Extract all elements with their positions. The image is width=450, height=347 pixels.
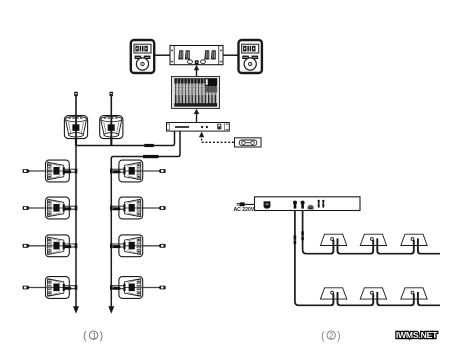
svg-text:(: ( — [83, 330, 87, 342]
power sequencer / amplifier U3 (AC 220V) — [255, 197, 361, 211]
ceiling speaker CS6 (row 2) — [401, 288, 427, 299]
wire stubs WS8 to trunk column 2 — [110, 285, 124, 290]
wire plug P2 down to CS-B — [110, 94, 112, 116]
wire plug to wall speaker WS8 — [142, 287, 158, 289]
svg-text:): ) — [100, 330, 104, 342]
wire CS-A drop to feed line — [75, 139, 77, 146]
leads of ceiling speaker CS4 — [331, 292, 341, 305]
leads of ceiling speaker CS3 — [411, 238, 421, 253]
arrow preamp to mixer — [194, 109, 199, 123]
ceiling speaker CS4 (row 2) — [320, 288, 346, 299]
plug P3 for wall speaker WS1 — [23, 169, 31, 173]
wire stubs WS3 to trunk column 1 — [64, 243, 77, 248]
zone preamp / distributor U2 — [167, 123, 230, 132]
svg-text:): ) — [337, 330, 341, 342]
power socket on U3 — [264, 201, 271, 208]
terminal group T4 (speaker outputs) — [318, 200, 325, 208]
wire stubs WS5 to trunk column 2 — [110, 169, 124, 174]
plug P6 for wall speaker WS4 — [23, 286, 31, 290]
wire stubs WS7 to trunk column 2 — [110, 243, 124, 248]
arrow trunk column 1 continues — [73, 306, 79, 314]
wall speaker WS2 — [46, 197, 70, 219]
ceiling speaker CS1 (row 1) — [320, 234, 346, 245]
svg-text:2: 2 — [329, 330, 334, 340]
wall speaker WS1 — [46, 160, 70, 182]
arrow trunk column 2 continues — [108, 306, 114, 314]
svg-text:AC 220V: AC 220V — [234, 207, 255, 213]
wire plug to wall speaker WS1 — [30, 170, 47, 172]
output terminal T1 — [293, 201, 297, 209]
connector blocks on row-2 drop wire — [294, 235, 297, 244]
wire bus row 2 tail — [421, 304, 440, 306]
cassette deck / program source — [235, 138, 262, 147]
leads of ceiling speaker CS5 — [370, 292, 380, 305]
leads of ceiling speaker CS6 — [411, 292, 421, 305]
ceiling speaker CS2 (row 1) — [360, 234, 386, 245]
svg-text:1: 1 — [92, 330, 97, 340]
connector block on feed line A — [144, 144, 154, 147]
wire trunk column 1 — [75, 146, 77, 307]
wire plug to wall speaker WS5 — [142, 170, 158, 172]
wire bus row 2 segment 2 — [380, 304, 411, 306]
output terminal T2 — [301, 201, 305, 209]
wire plug to wall speaker WS7 — [142, 245, 158, 247]
svg-text:(: ( — [321, 330, 325, 342]
wire stubs WS6 to trunk column 2 — [110, 206, 124, 211]
ceiling speaker CS-A — [64, 116, 87, 139]
wire plug to wall speaker WS2 — [30, 207, 47, 209]
terminal T3 (fuse holder) — [307, 205, 314, 209]
plug P10 for wall speaker WS8 — [158, 286, 166, 290]
wall speaker WS4 — [46, 277, 70, 299]
mixer console MX — [172, 77, 220, 109]
wire bus row 1 tail — [421, 253, 440, 255]
wall speaker WS6 — [119, 197, 143, 219]
power amplifier U1 — [170, 46, 223, 65]
wire plug to wall speaker WS3 — [30, 245, 47, 247]
ceiling speaker CS5 (row 2) — [360, 288, 386, 299]
wire stubs WS2 to trunk column 1 — [64, 206, 77, 211]
wire amplifier to SP2 — [223, 54, 239, 56]
wire CS-B drop to feed line — [110, 139, 112, 146]
svg-text:IWMS.NET: IWMS.NET — [396, 330, 438, 340]
leads of ceiling speaker CS1 — [331, 238, 341, 253]
wire plug to wall speaker WS4 — [30, 287, 47, 289]
ceiling speaker CS3 (row 1) — [401, 234, 427, 245]
dashed wire cassette deck to preamp with arrow — [199, 132, 234, 143]
connector blocks on row-1 drop wire — [301, 231, 304, 240]
leads of ceiling speaker CS2 — [370, 238, 380, 253]
wire bus row 2 segment 1 — [340, 304, 370, 306]
plug P8 for wall speaker WS6 — [158, 206, 166, 210]
wire plug to wall speaker WS6 — [142, 207, 158, 209]
wire U3 output pair to speaker row 2 — [295, 211, 331, 306]
wall speaker WS3 — [46, 235, 70, 257]
wire feed line from preamp output B to column 2 — [111, 131, 180, 307]
ceiling speaker CS-B — [100, 116, 123, 139]
wall speaker WS8 — [119, 277, 143, 299]
wire SP1 to amplifier — [154, 54, 170, 56]
plug P7 for wall speaker WS5 — [158, 169, 166, 173]
wire stubs WS4 to trunk column 1 — [64, 285, 77, 290]
plug P9 for wall speaker WS7 — [158, 244, 166, 248]
wire stubs WS1 to trunk column 1 — [64, 169, 77, 174]
plug P2 above ceiling speaker CS-B — [110, 92, 114, 96]
wire U3 output pair to speaker row 1 — [303, 211, 331, 254]
speaker SP2 (right main loudspeaker) — [239, 40, 262, 73]
wire bus row 1 segment 1 — [340, 253, 370, 255]
plug P1 above ceiling speaker CS-A — [74, 92, 78, 96]
wire bus row 1 segment 2 — [380, 253, 411, 255]
plug P5 for wall speaker WS3 — [23, 244, 31, 248]
wire plug P1 down to CS-A — [75, 94, 77, 116]
label (2) zone 2 — [321, 330, 341, 342]
wall speaker WS7 — [119, 235, 143, 257]
plug P4 for wall speaker WS2 — [23, 206, 31, 210]
arrow mixer to amplifier — [194, 65, 199, 77]
connector block on feed line B — [143, 155, 159, 158]
speaker SP1 (left main loudspeaker) — [131, 40, 154, 73]
mains plug and cord — [237, 202, 264, 206]
label (1) zone 1 — [83, 330, 103, 342]
wire feed line from preamp output A — [76, 131, 175, 146]
wall speaker WS5 — [119, 160, 143, 182]
